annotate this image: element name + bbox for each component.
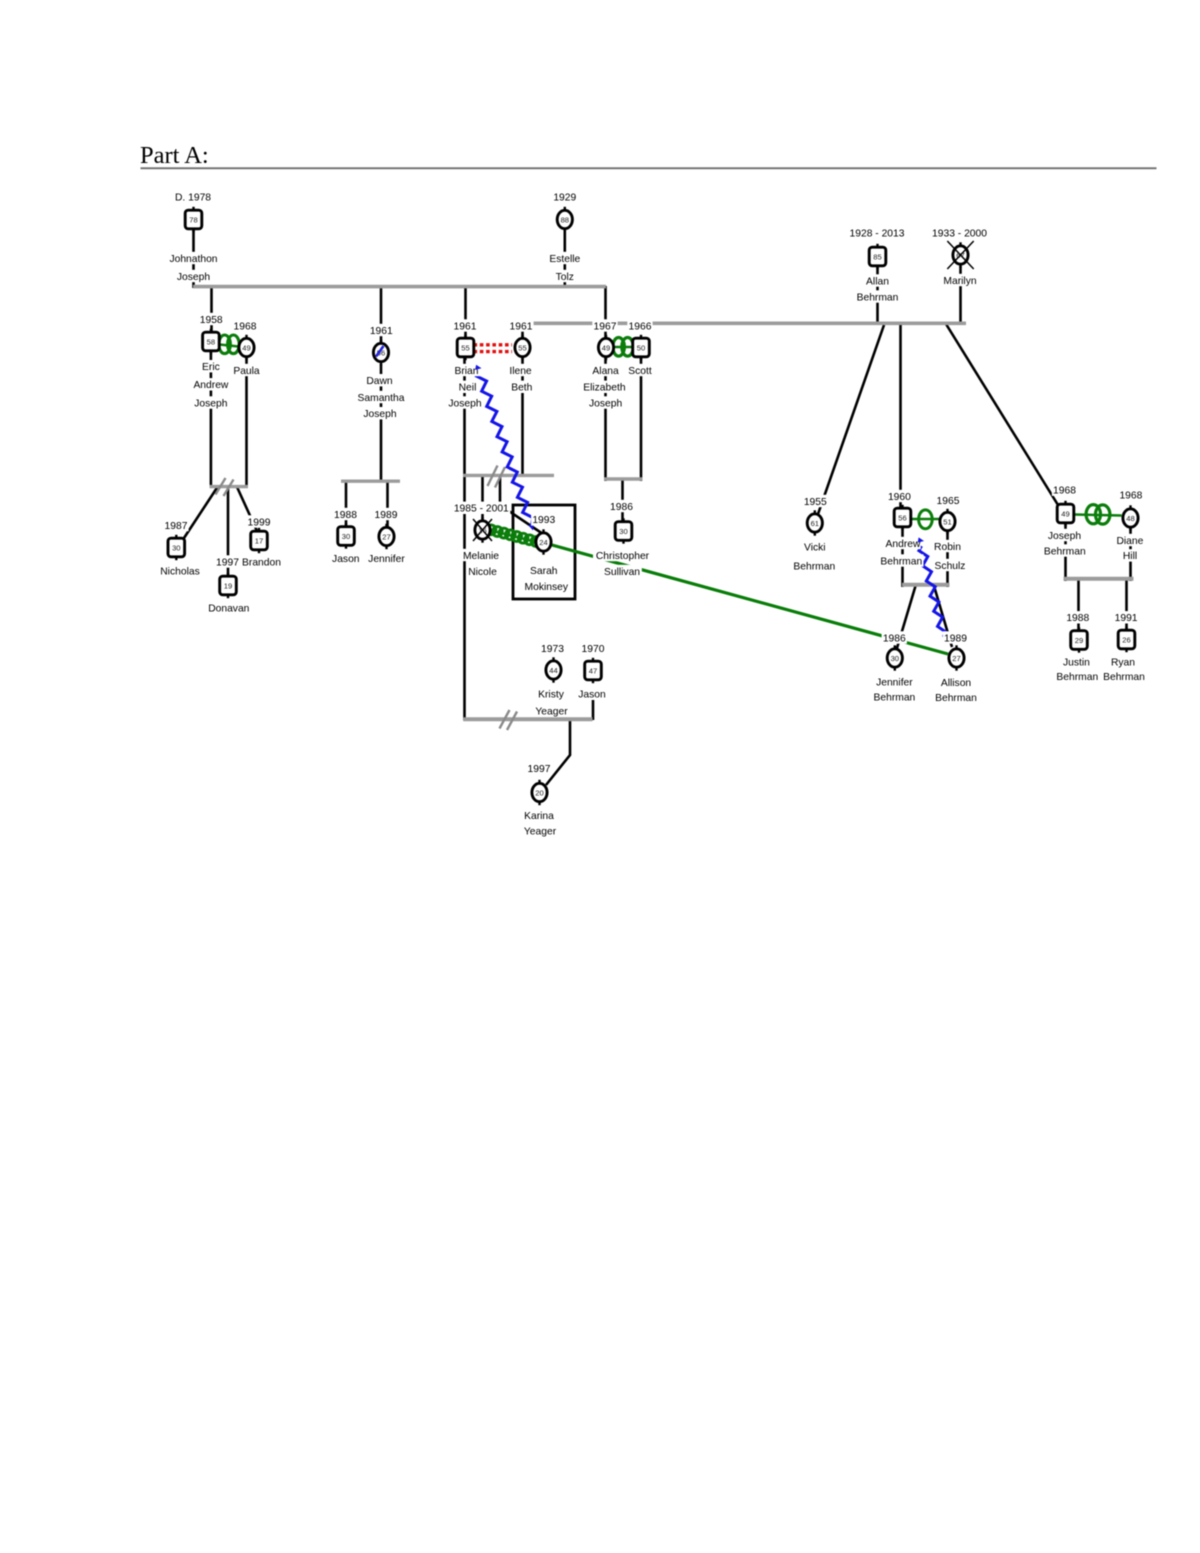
- label 1988 for justin: [1065, 611, 1090, 623]
- label Joseph for johnathon: [176, 270, 211, 282]
- svg-text:30: 30: [172, 543, 180, 552]
- family bar Johnathon+Estelle: [193, 285, 606, 289]
- marriage bar Brian+Ilene: [463, 474, 554, 477]
- svg-text:1999: 1999: [248, 517, 271, 528]
- label 1968 for josephb: [1052, 484, 1077, 496]
- person symbol Diane Hill (diane): [1129, 505, 1131, 510]
- label Hill for diane: [1121, 549, 1140, 561]
- svg-text:1961: 1961: [370, 326, 393, 337]
- distant relationship wavy line Andrew to Allison (blue): [919, 546, 946, 636]
- wire diagonal child drop to Brandon: [237, 487, 257, 531]
- label Schulz for robin: [933, 559, 966, 571]
- svg-text:Behrman: Behrman: [1056, 672, 1098, 683]
- svg-text:Allan: Allan: [866, 276, 889, 287]
- label Mokinsey for sarah: [524, 580, 570, 592]
- label Neil for brian: [457, 381, 478, 393]
- svg-text:1991: 1991: [1115, 613, 1138, 624]
- label D. 1978 for johnathon: [174, 190, 213, 202]
- label Brandon for brandon: [241, 555, 282, 567]
- small blue arrow next to Andrew: [918, 537, 924, 542]
- svg-text:1985 - 2001: 1985 - 2001: [454, 504, 509, 515]
- person symbol Karina Yeager (karina): [538, 780, 540, 785]
- svg-text:56: 56: [898, 513, 906, 522]
- wire child drop to Ryan: [1125, 579, 1128, 630]
- svg-text:Joseph: Joseph: [177, 272, 210, 283]
- person symbol Christopher Sullivan (christopher): [622, 518, 624, 523]
- label Diane for diane: [1116, 534, 1144, 546]
- svg-text:Karina: Karina: [524, 811, 554, 822]
- label Joseph for eric: [193, 396, 228, 408]
- wire child drop to Jason b.1988: [345, 481, 348, 528]
- svg-text:Behrman: Behrman: [793, 561, 835, 572]
- svg-text:30: 30: [619, 527, 627, 536]
- label Allison for allison: [939, 676, 973, 688]
- label 1968 for paula: [232, 319, 257, 331]
- label Behrman for ryan: [1102, 670, 1146, 682]
- wire Diane stub down to marriage bar: [1129, 527, 1132, 581]
- svg-text:D. 1978: D. 1978: [175, 192, 211, 203]
- label 1968 for diane: [1118, 489, 1143, 501]
- person symbol Jennifer Behrman (jenniferb): [894, 645, 896, 650]
- person symbol Brandon (brandon): [258, 528, 260, 533]
- svg-text:1961: 1961: [454, 321, 477, 332]
- label Marilyn for marilyn: [941, 274, 979, 286]
- label Yeager for kristy: [534, 704, 569, 716]
- family bar Dawn: [341, 480, 400, 483]
- marriage bar Alana+Scott: [604, 477, 643, 480]
- label Brian for brian: [452, 364, 480, 376]
- svg-text:61: 61: [811, 519, 819, 528]
- person symbol Eric Andrew Joseph (eric): [210, 329, 212, 334]
- person symbol Scott (scott): [640, 335, 642, 340]
- wire child drop to Sarah: [500, 475, 543, 534]
- wire diagonal child drop to Vicki: [818, 325, 884, 514]
- divorce slashes on Kristy+Jason bar: [500, 710, 510, 729]
- wire diagonal child drop to Allison Behrman: [934, 586, 952, 647]
- label Tolz for estelle: [553, 270, 576, 282]
- svg-text:1973: 1973: [541, 644, 564, 655]
- svg-text:Vicki: Vicki: [804, 542, 826, 553]
- label 1988 for jason88: [333, 508, 358, 520]
- label Jason for jason88: [331, 552, 361, 564]
- svg-text:Christopher: Christopher: [596, 551, 650, 562]
- svg-text:Behrman: Behrman: [935, 693, 977, 704]
- label Sullivan for christopher: [602, 565, 642, 577]
- svg-text:88: 88: [561, 215, 569, 224]
- svg-text:1970: 1970: [582, 644, 605, 655]
- svg-text:49: 49: [602, 343, 610, 352]
- wire child drop to Christopher: [621, 479, 624, 523]
- svg-text:Joseph: Joseph: [1048, 531, 1081, 542]
- svg-text:Behrman: Behrman: [1103, 672, 1145, 683]
- svg-text:20: 20: [535, 788, 543, 797]
- wire elbow child drop to Karina: [546, 719, 570, 785]
- person symbol Nicholas (nicholas): [175, 535, 177, 540]
- label Ilene for ilene: [509, 364, 533, 376]
- marriage bar Andrew+Robin: [902, 583, 950, 587]
- person symbol Brian Neil Joseph (brian): [464, 335, 466, 340]
- svg-text:78: 78: [189, 215, 197, 224]
- svg-text:1960: 1960: [888, 492, 911, 503]
- person symbol Dawn Samantha Joseph (dawn): [380, 340, 382, 345]
- person symbol Kristy Yeager (kristy): [552, 657, 554, 662]
- person symbol Melanie Nicole (melanie): [481, 517, 483, 522]
- svg-text:26: 26: [1122, 635, 1130, 644]
- svg-text:Joseph: Joseph: [363, 409, 396, 420]
- svg-text:Donavan: Donavan: [208, 603, 249, 614]
- wire Joseph Behrman stub down to marriage bar: [1064, 522, 1067, 581]
- wire Brian long stub down through both marriage bars: [463, 356, 466, 720]
- label Behrman for allison: [934, 691, 978, 703]
- label 1993 for sarah: [531, 513, 556, 525]
- stray blue mark inside Dawn circle (as in reference): [376, 346, 384, 357]
- label Elizabeth for alana: [581, 381, 628, 393]
- label Vicki for vicki: [802, 540, 828, 552]
- svg-text:1958: 1958: [200, 315, 223, 326]
- person symbol Marilyn (marilyn): [959, 242, 961, 247]
- svg-text:Ilene: Ilene: [509, 366, 532, 377]
- wire diagonal child drop to Joseph Behrman: [946, 324, 1058, 505]
- wire Alana stub down to marriage bar: [604, 356, 607, 481]
- svg-text:55: 55: [518, 343, 526, 352]
- svg-text:44: 44: [549, 666, 557, 675]
- svg-text:Ryan: Ryan: [1111, 657, 1135, 668]
- svg-text:1929: 1929: [553, 192, 576, 203]
- divorce slashes on Brian+Ilene bar: [488, 466, 498, 487]
- marriage bar Joseph+Diane: [1064, 577, 1134, 581]
- svg-text:1955: 1955: [804, 497, 827, 508]
- svg-text:Hill: Hill: [1123, 551, 1137, 562]
- label Joseph for josephb: [1047, 529, 1082, 541]
- person symbol Joseph Behrman (josephb): [1064, 501, 1066, 506]
- label 1997 for karina: [526, 762, 551, 774]
- svg-text:Brandon: Brandon: [242, 557, 281, 568]
- wire diagonal child drop to Nicholas: [184, 487, 218, 538]
- wire Ilene stub down to marriage bar: [521, 356, 524, 477]
- svg-text:1993: 1993: [532, 515, 555, 526]
- conflict relationship (red double dotted) Brian-Ilene: [474, 343, 513, 346]
- person symbol Jason (jason70): [592, 658, 594, 663]
- svg-text:16: 16: [478, 526, 486, 535]
- label Joseph for alana: [588, 396, 623, 408]
- svg-text:Behrman: Behrman: [1044, 546, 1086, 557]
- person symbol Allison Behrman (allison): [955, 645, 957, 650]
- label Yeager for karina: [522, 824, 557, 836]
- svg-text:27: 27: [382, 532, 390, 541]
- svg-text:Jason: Jason: [578, 690, 606, 701]
- wire child drop to Alana: [604, 286, 607, 340]
- svg-text:Robin: Robin: [934, 542, 961, 553]
- svg-text:Behrman: Behrman: [880, 556, 922, 567]
- person symbol Ryan Behrman (ryan): [1125, 627, 1127, 632]
- svg-text:Jason: Jason: [332, 554, 360, 565]
- label Ryan for ryan: [1111, 655, 1136, 667]
- wire child drop to Dawn: [380, 286, 383, 342]
- label 1961 for ilene: [508, 319, 533, 331]
- label 1961 for dawn: [369, 324, 394, 336]
- label Beth for ilene: [509, 381, 534, 393]
- svg-text:50: 50: [637, 343, 645, 352]
- svg-text:Joseph: Joseph: [589, 398, 622, 409]
- label 1985 - 2001 for melanie: [452, 502, 510, 514]
- person symbol Vicki Behrman (vicki): [814, 510, 816, 515]
- label Behrman for vicki: [792, 559, 836, 571]
- person symbol Allan Behrman (allan): [876, 244, 878, 249]
- svg-text:Johnathon: Johnathon: [169, 254, 217, 265]
- svg-text:1961: 1961: [510, 321, 533, 332]
- label 1986 for christopher: [609, 500, 634, 512]
- svg-text:27: 27: [952, 654, 960, 663]
- svg-text:Eric: Eric: [202, 362, 220, 373]
- person symbol Jennifer (jennifer89): [385, 524, 387, 529]
- svg-text:49: 49: [1061, 509, 1069, 518]
- svg-text:1966: 1966: [629, 321, 652, 332]
- svg-text:1968: 1968: [1119, 491, 1142, 502]
- label 1955 for vicki: [803, 495, 828, 507]
- wire Johnathon stub down to Joseph family bar: [192, 230, 195, 288]
- label Estelle for estelle: [547, 252, 583, 264]
- wire child drop to Melanie: [481, 475, 484, 522]
- svg-text:Sullivan: Sullivan: [604, 567, 640, 578]
- svg-text:51: 51: [943, 517, 951, 526]
- label Jennifer for jennifer89: [365, 552, 409, 564]
- label 1970 for jason70: [580, 642, 605, 654]
- svg-text:Kristy: Kristy: [538, 690, 565, 701]
- label Donavan for donavan: [209, 601, 250, 613]
- svg-text:Marilyn: Marilyn: [943, 276, 976, 287]
- wire Allan stub down to Behrman family bar: [876, 266, 879, 325]
- marriage bar Eric+Paula: [210, 485, 249, 488]
- svg-text:Behrman: Behrman: [874, 693, 916, 704]
- svg-text:1986: 1986: [610, 502, 633, 513]
- svg-text:Mokinsey: Mokinsey: [525, 582, 569, 593]
- wire diagonal child drop to Jennifer Behrman: [897, 586, 916, 648]
- label Dawn for dawn: [367, 374, 392, 386]
- svg-text:Melanie: Melanie: [463, 551, 499, 562]
- svg-text:Yeager: Yeager: [535, 706, 568, 717]
- label Behrman for allan: [855, 290, 899, 302]
- label Alana for alana: [592, 364, 620, 376]
- family bar Allan+Marilyn: [521, 321, 966, 325]
- svg-text:Jennifer: Jennifer: [368, 554, 405, 565]
- svg-text:49: 49: [242, 343, 250, 352]
- person symbol Jason (jason88): [345, 523, 347, 528]
- svg-text:Sarah: Sarah: [530, 566, 558, 577]
- svg-text:Nicole: Nicole: [468, 567, 497, 578]
- label 1960 for andrew: [887, 490, 912, 502]
- svg-text:85: 85: [873, 252, 881, 261]
- svg-text:1968: 1968: [234, 321, 257, 332]
- svg-text:19: 19: [224, 581, 232, 590]
- label Jason for jason70: [577, 688, 607, 700]
- label Joseph for brian: [447, 396, 482, 408]
- svg-text:Diane: Diane: [1116, 536, 1143, 547]
- svg-text:1933 - 2000: 1933 - 2000: [932, 228, 987, 239]
- svg-text:Part A:: Part A:: [140, 142, 209, 169]
- wire child drop to Brian: [464, 286, 467, 340]
- person symbol Ilene Beth (ilene): [521, 335, 523, 340]
- label Paula for paula: [232, 364, 260, 376]
- svg-text:Paula: Paula: [233, 366, 260, 377]
- label Melanie for melanie: [462, 549, 500, 561]
- divorce slashes on Eric+Paula bar: [216, 478, 226, 495]
- svg-text:Samantha: Samantha: [358, 393, 405, 404]
- svg-text:1997: 1997: [216, 557, 239, 568]
- header rule: [141, 167, 1157, 169]
- wire Marilyn stub down to Behrman family bar: [959, 266, 962, 325]
- small blue arrow next to Brian: [475, 365, 481, 370]
- friendship ring chain Melanie-Sarah: [491, 531, 538, 543]
- svg-text:Dawn: Dawn: [366, 376, 393, 387]
- index person rectangle around Sarah Mokinsey: [513, 505, 575, 599]
- label Joseph for dawn: [362, 407, 397, 419]
- label Johnathon for johnathon: [168, 252, 219, 264]
- wire child drop to Ilene: [521, 323, 524, 341]
- svg-text:Schulz: Schulz: [935, 561, 966, 572]
- svg-text:58: 58: [207, 337, 215, 346]
- svg-text:Joseph: Joseph: [448, 398, 481, 409]
- label Andrew for eric: [193, 378, 228, 390]
- label 1967 for alana: [592, 319, 617, 331]
- label 1928 - 2013 for allan: [848, 226, 906, 238]
- label 1989 for allison: [943, 631, 968, 643]
- label 1929 for estelle: [552, 190, 577, 202]
- label Robin for robin: [933, 540, 961, 552]
- wire Eric stub down to marriage bar: [210, 351, 213, 488]
- label 1986 for jenniferb: [882, 631, 907, 643]
- person symbol Donavan (donavan): [227, 573, 229, 578]
- wire Andrew stub down to marriage bar: [901, 526, 904, 587]
- label 1933 - 2000 for marilyn: [930, 226, 988, 238]
- svg-text:Nicholas: Nicholas: [160, 566, 200, 577]
- svg-text:1988: 1988: [1066, 613, 1089, 624]
- svg-text:Andrew: Andrew: [886, 539, 921, 550]
- label Behrman for josephb: [1043, 544, 1087, 556]
- svg-text:1965: 1965: [937, 496, 960, 507]
- marriage bar Kristy+Jason: [463, 717, 592, 721]
- svg-text:Jennifer: Jennifer: [876, 678, 913, 689]
- wire Jason b.1970 stub down to marriage bar: [592, 700, 595, 720]
- svg-text:67: 67: [956, 251, 964, 260]
- svg-text:55: 55: [461, 343, 469, 352]
- label Christopher for christopher: [593, 549, 652, 561]
- svg-text:Neil: Neil: [459, 383, 477, 394]
- person symbol Sarah Mokinsey (sarah): [542, 529, 544, 534]
- person symbol Johnathon Joseph (johnathon): [192, 207, 194, 212]
- person symbol Justin Behrman (justin): [1078, 627, 1080, 632]
- svg-text:Estelle: Estelle: [549, 254, 580, 265]
- wire Scott stub down to marriage bar: [640, 356, 643, 481]
- label 1999 for brandon: [246, 515, 271, 527]
- label Andrew for andrew: [885, 537, 920, 549]
- wire Estelle stub down to Joseph family bar: [563, 230, 566, 288]
- distant relationship wavy line Brian to Sarah (blue): [477, 371, 533, 527]
- svg-text:Tolz: Tolz: [556, 272, 574, 283]
- svg-text:48: 48: [1126, 514, 1134, 523]
- wire child drop to Donavan: [227, 487, 230, 578]
- svg-text:Alana: Alana: [592, 366, 619, 377]
- person symbol Robin Schulz (robin): [946, 509, 948, 514]
- svg-text:17: 17: [255, 536, 263, 545]
- svg-text:Justin: Justin: [1063, 658, 1090, 669]
- label Behrman for andrew: [879, 554, 923, 566]
- wire Robin stub down to marriage bar: [946, 530, 949, 587]
- label Jennifer for jenniferb: [873, 676, 917, 688]
- label Behrman for jenniferb: [872, 691, 916, 703]
- wire child drop to Andrew: [899, 323, 902, 510]
- label 1966 for scott: [627, 319, 652, 331]
- label Scott for scott: [625, 364, 655, 376]
- label 1987 for nicholas: [163, 519, 188, 531]
- svg-text:1928 - 2013: 1928 - 2013: [850, 228, 905, 239]
- label 1991 for ryan: [1113, 611, 1138, 623]
- label 1989 for jennifer89: [373, 508, 398, 520]
- svg-text:1988: 1988: [334, 510, 357, 521]
- svg-text:1989: 1989: [944, 633, 967, 644]
- friendship line Sarah-Allison (long green diagonal): [552, 545, 948, 654]
- svg-text:30: 30: [891, 654, 899, 663]
- label 1958 for eric: [199, 313, 224, 325]
- svg-text:1987: 1987: [165, 521, 188, 532]
- svg-text:Behrman: Behrman: [857, 292, 899, 303]
- wire Paula stub down to marriage bar: [245, 356, 248, 488]
- label Samantha for dawn: [356, 391, 406, 403]
- svg-text:Yeager: Yeager: [524, 826, 557, 837]
- label 1965 for robin: [935, 494, 960, 506]
- person symbol Paula (paula): [245, 335, 247, 340]
- harmony rings Eric-Paula: [220, 345, 239, 347]
- svg-text:Andrew: Andrew: [193, 380, 228, 391]
- person symbol Estelle Tolz (estelle): [564, 207, 566, 212]
- label Allan for allan: [865, 274, 891, 286]
- svg-text:Elizabeth: Elizabeth: [583, 383, 626, 394]
- wire child drop to Eric: [210, 286, 213, 334]
- svg-text:1967: 1967: [594, 321, 617, 332]
- person symbol Andrew Behrman (andrew): [901, 505, 903, 510]
- svg-text:1968: 1968: [1053, 486, 1076, 497]
- svg-text:Joseph: Joseph: [194, 398, 227, 409]
- label 1961 for brian: [452, 319, 477, 331]
- wire child drop to Jennifer b.1989: [386, 481, 389, 528]
- harmony rings Joseph-Diane: [1075, 515, 1122, 516]
- person symbol Alana Elizabeth Joseph (alana): [605, 335, 607, 340]
- svg-text:1997: 1997: [528, 764, 551, 775]
- label Kristy for kristy: [534, 688, 567, 700]
- label Nicholas for nicholas: [159, 564, 201, 576]
- svg-text:30: 30: [342, 532, 350, 541]
- svg-text:47: 47: [589, 666, 597, 675]
- wire child drop to Justin: [1077, 579, 1080, 630]
- svg-text:1989: 1989: [375, 510, 398, 521]
- svg-text:Beth: Beth: [511, 383, 532, 394]
- wire Dawn stub down to family bar: [380, 364, 383, 482]
- label 1973 for kristy: [540, 642, 565, 654]
- label Eric for eric: [199, 360, 222, 372]
- svg-text:Brian: Brian: [454, 366, 478, 377]
- label Justin for justin: [1060, 656, 1093, 668]
- svg-text:Scott: Scott: [628, 366, 652, 377]
- svg-text:24: 24: [539, 538, 547, 547]
- svg-text:29: 29: [1075, 636, 1083, 645]
- label Karina for karina: [522, 809, 555, 821]
- label Behrman for justin: [1055, 670, 1099, 682]
- svg-text:1986: 1986: [883, 633, 906, 644]
- label Sarah for sarah: [529, 564, 559, 576]
- svg-text:Allison: Allison: [941, 678, 972, 689]
- label 1997 for donavan: [215, 555, 240, 567]
- harmony ring Andrew-Robin: [912, 518, 940, 521]
- label Nicole for melanie: [467, 565, 498, 577]
